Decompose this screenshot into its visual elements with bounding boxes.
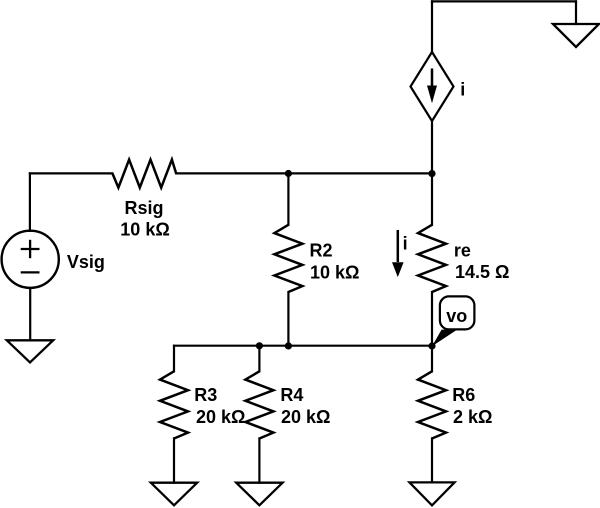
svg-text:R2: R2	[310, 241, 333, 261]
svg-text:Rsig: Rsig	[125, 198, 164, 218]
svg-text:14.5 Ω: 14.5 Ω	[455, 262, 509, 282]
svg-text:vo: vo	[446, 306, 467, 326]
svg-text:2 kΩ: 2 kΩ	[453, 407, 492, 427]
svg-text:re: re	[454, 240, 471, 260]
svg-text:10 kΩ: 10 kΩ	[310, 263, 359, 283]
svg-text:20 kΩ: 20 kΩ	[196, 407, 245, 427]
svg-text:Vsig: Vsig	[67, 252, 105, 272]
svg-text:R6: R6	[452, 385, 475, 405]
svg-text:10 kΩ: 10 kΩ	[120, 220, 169, 240]
svg-text:R4: R4	[280, 385, 303, 405]
svg-text:i: i	[460, 80, 465, 100]
svg-text:20 kΩ: 20 kΩ	[281, 407, 330, 427]
svg-text:R3: R3	[194, 385, 217, 405]
svg-text:i: i	[403, 233, 408, 253]
